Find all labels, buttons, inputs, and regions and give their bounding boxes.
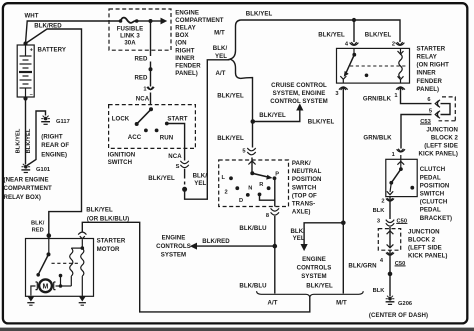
svg-text:RELAY: RELAY: [417, 54, 437, 61]
svg-text:M: M: [43, 284, 49, 291]
svg-text:BLK/YEL: BLK/YEL: [217, 135, 244, 142]
clutch pedal position switch box: [386, 159, 417, 196]
svg-text:P: P: [275, 171, 279, 177]
wire loop in junction block: [441, 104, 451, 115]
node BLK/RED at starter motor: [47, 233, 52, 238]
svg-text:ENGINE: ENGINE: [175, 9, 199, 16]
wire BLK/YEL battery- to G101: [25, 97, 27, 165]
node battery negative: [23, 96, 27, 100]
svg-text:POSITION: POSITION: [420, 182, 450, 189]
svg-text:CONTROL SYSTEM: CONTROL SYSTEM: [270, 98, 328, 105]
svg-text:(ON: (ON: [175, 40, 186, 47]
svg-text:(LEFT SIDE: (LEFT SIDE: [408, 244, 442, 251]
node top junction pin4: [352, 18, 356, 22]
wire BLK/YEL top run to starter relay: [241, 20, 401, 42]
svg-text:BLK/GRN: BLK/GRN: [348, 263, 376, 270]
svg-text:BOX: BOX: [175, 32, 189, 39]
svg-text:NEUTRAL: NEUTRAL: [292, 168, 322, 175]
svg-text:RELAY: RELAY: [175, 25, 195, 32]
svg-text:5: 5: [429, 108, 432, 114]
svg-text:RUN: RUN: [160, 134, 173, 141]
svg-text:8: 8: [266, 213, 269, 219]
svg-text:FENDER: FENDER: [175, 63, 201, 70]
fusible link 3 30A: [119, 18, 151, 23]
svg-text:BLK/: BLK/: [290, 228, 305, 235]
svg-text:SYSTEM: SYSTEM: [301, 273, 326, 280]
motor M: [36, 279, 56, 292]
svg-text:1: 1: [394, 93, 397, 99]
svg-text:BLOCK 2: BLOCK 2: [408, 236, 436, 243]
svg-text:2: 2: [381, 198, 384, 204]
node battery positive: [23, 41, 27, 45]
wire through junction block: [387, 227, 394, 248]
svg-text:SYSTEM, ENGINE: SYSTEM, ENGINE: [273, 90, 326, 97]
wire BLK/YEL M/T relay pin3 down: [342, 87, 344, 294]
junction block 2 C50 (dashed): [378, 229, 400, 251]
wire BLK/YEL ground strap G101 to G117: [27, 111, 46, 166]
svg-text:SWITCH: SWITCH: [292, 184, 316, 191]
wire BLK/YEL A/T branch down: [241, 78, 253, 148]
svg-text:KICK PANEL): KICK PANEL): [408, 253, 447, 260]
svg-text:M/T: M/T: [214, 29, 225, 36]
svg-text:1: 1: [143, 87, 146, 93]
svg-text:BLK/YEL: BLK/YEL: [217, 92, 244, 99]
wire M/T up to brace cusp: [185, 60, 230, 199]
svg-text:FENDER: FENDER: [417, 78, 443, 85]
svg-text:BLK/YEL: BLK/YEL: [306, 283, 333, 290]
svg-text:JUNCTION: JUNCTION: [408, 228, 440, 235]
svg-text:YEL: YEL: [215, 53, 227, 60]
svg-text:BLK/YEL: BLK/YEL: [86, 207, 113, 214]
connector S at starter motor: [78, 232, 86, 235]
svg-text:RED: RED: [134, 74, 148, 81]
ground starter motor left: [27, 296, 34, 305]
svg-text:NCA: NCA: [168, 153, 182, 160]
svg-text:ENGINE): ENGINE): [41, 152, 67, 159]
svg-text:A/T: A/T: [216, 70, 226, 77]
svg-text:STARTER: STARTER: [97, 238, 126, 245]
svg-text:CLUTCH: CLUTCH: [420, 166, 445, 173]
svg-text:(RIGHT: (RIGHT: [41, 134, 63, 141]
svg-text:COMPARTMENT: COMPARTMENT: [4, 185, 52, 192]
svg-text:GRN/BLK: GRN/BLK: [363, 96, 392, 103]
svg-text:R: R: [259, 182, 263, 188]
svg-text:GRN/BLK: GRN/BLK: [363, 135, 392, 142]
svg-text:BLK/: BLK/: [213, 45, 228, 52]
svg-text:M/T: M/T: [336, 299, 347, 306]
wire RED fuse to ignition switch: [149, 21, 153, 105]
park/neutral position switch box (dashed): [219, 160, 289, 207]
node splice S2: [182, 187, 187, 192]
svg-text:3: 3: [377, 218, 380, 224]
ignition switch box (dashed): [109, 105, 196, 149]
node G206 splice: [388, 272, 393, 277]
svg-text:BLK/YEL: BLK/YEL: [26, 128, 32, 153]
svg-text:30A: 30A: [124, 40, 136, 47]
svg-text:INNER: INNER: [175, 55, 195, 62]
svg-text:TRANS-: TRANS-: [292, 201, 315, 208]
node BLK/RED branch junction: [273, 244, 278, 249]
svg-text:BLK/: BLK/: [31, 221, 45, 227]
svg-text:S: S: [176, 164, 180, 170]
svg-text:(OR BLK/BLU): (OR BLK/BLU): [87, 216, 129, 223]
svg-text:BLK/YEL: BLK/YEL: [259, 112, 286, 119]
svg-text:2: 2: [392, 42, 395, 48]
svg-text:5: 5: [242, 149, 245, 155]
svg-text:1: 1: [392, 152, 395, 158]
relay mechanical link (dashed): [350, 65, 406, 67]
svg-text:PANEL): PANEL): [417, 86, 440, 93]
svg-text:POSITION: POSITION: [292, 176, 322, 183]
node M/T branch junction: [341, 221, 346, 226]
wire BLK/RED battery+ right and down to starter motor: [26, 29, 82, 234]
node fuse output junction: [149, 19, 153, 23]
svg-text:SYSTEM: SYSTEM: [161, 252, 186, 259]
brace M/T A/T split: [230, 20, 241, 78]
ignition switch: [135, 107, 169, 132]
ground G117: [41, 116, 50, 125]
wire merge output to starter motor S: [82, 222, 309, 312]
wire START to connector S: [167, 124, 185, 161]
svg-text:BLK/RED: BLK/RED: [34, 22, 62, 29]
svg-text:2: 2: [225, 190, 228, 196]
svg-text:PEDAL: PEDAL: [420, 174, 441, 181]
engine compartment relay box (dashed): [109, 9, 171, 50]
svg-text:(NEAR ENGINE: (NEAR ENGINE: [4, 177, 49, 184]
svg-text:D: D: [239, 198, 243, 204]
svg-text:6: 6: [427, 97, 430, 103]
svg-text:LOCK: LOCK: [112, 115, 130, 122]
solenoid linkage (dashed): [52, 262, 79, 264]
svg-text:BLK/BLU: BLK/BLU: [239, 283, 267, 290]
svg-text:JUNCTION: JUNCTION: [426, 126, 458, 133]
svg-text:(CLUTCH: (CLUTCH: [420, 199, 448, 206]
node A/T cruise junction: [251, 119, 256, 124]
wire BLK/GRN to ground: [389, 250, 391, 296]
svg-text:ACC: ACC: [128, 134, 142, 141]
wire BLK/BLU down to merge brace: [274, 216, 276, 294]
wire GRN/BLK junction block to clutch switch: [401, 115, 432, 149]
svg-text:IGNITION: IGNITION: [108, 151, 136, 158]
starter relay switch: [340, 48, 356, 83]
wire BLK/YEL to cruise control system (arrow up): [253, 110, 300, 122]
svg-text:NCA: NCA: [136, 95, 150, 102]
svg-text:BLK/YEL: BLK/YEL: [148, 175, 175, 182]
svg-text:RED: RED: [134, 55, 148, 62]
clutch pedal position switch: [387, 155, 414, 195]
svg-text:KICK PANEL): KICK PANEL): [419, 151, 458, 158]
ground G206: [386, 296, 395, 305]
svg-text:BLK/YEL: BLK/YEL: [318, 31, 345, 38]
svg-text:BLK/YEL: BLK/YEL: [16, 128, 22, 153]
solenoid windings: [70, 240, 84, 297]
svg-text:BLK/RED: BLK/RED: [202, 238, 230, 245]
svg-text:BLK: BLK: [373, 208, 386, 214]
svg-text:BLK/YEL: BLK/YEL: [246, 11, 273, 18]
svg-text:YEL: YEL: [194, 180, 206, 187]
wire BLK clutch to junction block: [389, 197, 391, 219]
svg-text:A/T: A/T: [268, 299, 278, 306]
svg-text:BATTERY: BATTERY: [38, 46, 67, 53]
svg-text:(TOP OF: (TOP OF: [292, 192, 317, 199]
svg-text:RED: RED: [32, 228, 44, 234]
svg-text:G101: G101: [36, 167, 50, 173]
starter relay box: [337, 48, 410, 83]
wire to relay pin 4: [353, 20, 355, 42]
svg-text:G206: G206: [398, 301, 412, 307]
svg-text:BLOCK 2: BLOCK 2: [431, 134, 459, 141]
relay spare contact: [365, 74, 369, 78]
svg-text:PEDAL: PEDAL: [420, 207, 441, 214]
merge brace A/T M/T: [257, 291, 364, 297]
wire BLK/YEL arrow to engine controls system (down): [304, 223, 343, 245]
svg-text:PARK/: PARK/: [292, 160, 311, 167]
battery: [17, 45, 34, 98]
svg-text:N: N: [248, 186, 252, 192]
svg-text:REAR OF: REAR OF: [41, 142, 69, 149]
motor brush wiring: [31, 286, 36, 296]
svg-text:G117: G117: [56, 119, 70, 125]
svg-text:BLK/YEL: BLK/YEL: [308, 118, 335, 125]
svg-text:BLK/YEL: BLK/YEL: [365, 31, 392, 38]
svg-text:RIGHT: RIGHT: [175, 47, 194, 54]
svg-text:BRACKET): BRACKET): [420, 215, 452, 222]
wire BLK/YEL ignition to splice: [184, 169, 186, 179]
svg-text:FUSIBLE: FUSIBLE: [117, 25, 144, 32]
svg-text:RELAY BOX): RELAY BOX): [4, 194, 42, 201]
starter motor box: [26, 239, 94, 297]
wire arrow exiting relay box right: [151, 20, 162, 22]
junction block 2 C53 (dashed): [439, 97, 456, 121]
svg-text:MOTOR: MOTOR: [97, 246, 120, 253]
svg-text:3: 3: [335, 91, 338, 97]
svg-text:AXLE): AXLE): [292, 209, 311, 216]
svg-text:BLK/: BLK/: [193, 173, 208, 180]
svg-text:CRUISE CONTROL: CRUISE CONTROL: [271, 82, 327, 89]
svg-text:COMPARTMENT: COMPARTMENT: [175, 17, 223, 24]
svg-text:(ON RIGHT: (ON RIGHT: [417, 62, 450, 69]
wire WHT battery+ to fusible link: [26, 21, 121, 44]
svg-text:SWITCH: SWITCH: [420, 191, 444, 198]
svg-text:ENGINE: ENGINE: [302, 256, 326, 263]
svg-text:YEL: YEL: [293, 235, 305, 242]
svg-text:WHT: WHT: [24, 13, 38, 20]
starter motor solenoid switch: [36, 236, 50, 277]
svg-text:CONTROLS: CONTROLS: [297, 265, 332, 272]
wire GRN/BLK relay pin1 to junction block C53: [401, 87, 432, 104]
svg-text:SWITCH: SWITCH: [108, 159, 132, 166]
svg-text:BLK: BLK: [373, 288, 386, 294]
svg-text:LINK 3: LINK 3: [120, 33, 140, 40]
ground starter motor right: [79, 296, 86, 305]
wire BLK/RED arrow to engine controls system: [197, 245, 275, 247]
starter relay coil: [398, 48, 404, 83]
ground G101: [21, 164, 30, 173]
svg-text:STARTER: STARTER: [417, 45, 446, 52]
svg-text:(CENTER OF DASH): (CENTER OF DASH): [369, 312, 428, 319]
svg-text:START: START: [167, 115, 187, 122]
svg-text:BLK/BLU: BLK/BLU: [239, 225, 267, 232]
svg-text:(LEFT SIDE: (LEFT SIDE: [424, 143, 458, 150]
svg-text:CONTROLS: CONTROLS: [156, 243, 191, 250]
svg-text:INNER: INNER: [417, 70, 437, 77]
park/neutral position switch: [229, 158, 276, 207]
svg-text:PANEL): PANEL): [175, 70, 198, 77]
svg-text:ENGINE: ENGINE: [162, 235, 186, 242]
svg-text:L: L: [222, 175, 226, 181]
svg-text:–: –: [30, 92, 33, 98]
